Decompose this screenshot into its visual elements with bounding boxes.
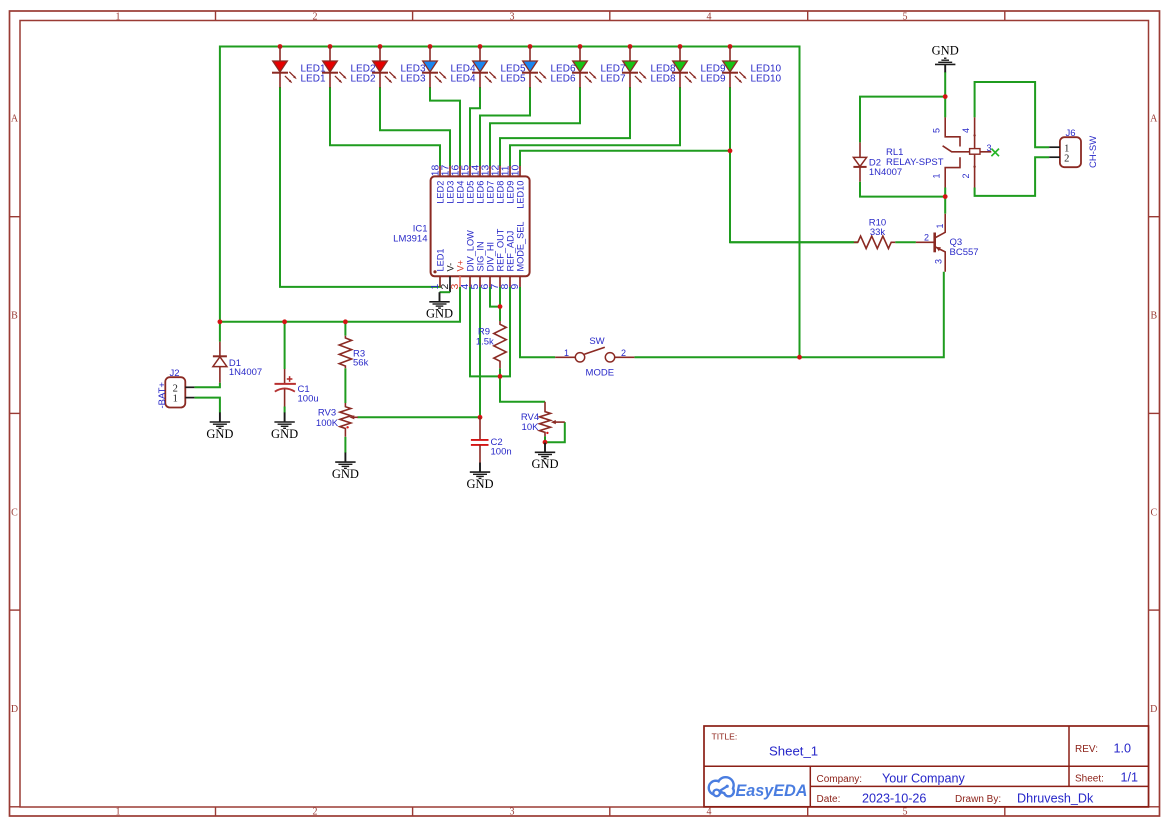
wire: LED8 cathode to IC pin 12 (500, 87, 630, 166)
svg-text:C: C (1150, 508, 1157, 519)
svg-text:LED8: LED8 (496, 181, 506, 204)
svg-text:9: 9 (510, 284, 521, 290)
wire: LED3 cathode to IC pin 17 (380, 87, 450, 166)
junction: R9 top node (498, 304, 503, 309)
svg-text:2: 2 (313, 807, 318, 818)
LED LED2 (322, 47, 376, 88)
wire: relay coil pin 5 connection (944, 97, 946, 118)
svg-text:LED4: LED4 (451, 73, 476, 84)
svg-text:LED4: LED4 (456, 181, 466, 204)
capacitor C2 100n (471, 417, 512, 462)
svg-text:LED10: LED10 (751, 73, 782, 84)
wire: C1 top lead to rail (284, 322, 286, 369)
svg-text:1: 1 (173, 394, 178, 405)
LED LED7 (572, 47, 626, 88)
wire: relay pin 2 to J6 pin 2 (975, 157, 1050, 196)
ground: C2 (466, 463, 493, 492)
svg-text:Dhruvesh_Dk: Dhruvesh_Dk (1017, 791, 1094, 805)
wire: LED10 node down and across to R10 (730, 151, 854, 243)
svg-text:Sheet_1: Sheet_1 (769, 744, 818, 759)
LED LED5 (472, 47, 526, 88)
svg-text:3: 3 (510, 11, 515, 22)
wire: LED6 cathode to IC pin 14 (480, 87, 530, 166)
svg-text:LED6: LED6 (476, 181, 486, 204)
wire: R9 top lead connection (499, 307, 501, 321)
svg-text:A: A (11, 114, 19, 125)
wire: SW pin 2 across to Q3 collector, junction with LED rail drop (634, 272, 943, 358)
svg-text:33k: 33k (870, 227, 886, 238)
svg-text:2023-10-26: 2023-10-26 (862, 791, 926, 805)
svg-text:MODE_SEL: MODE_SEL (516, 221, 526, 271)
svg-text:4: 4 (961, 128, 971, 133)
wire: relay pin 4 to J6 pin 1 (975, 82, 1050, 147)
svg-text:-BAT+: -BAT+ (157, 382, 168, 409)
wire: RV4 wiper loop to bottom node (545, 422, 565, 442)
ground: relay (inverted) (932, 44, 959, 73)
wire: LED10 cathode drop (729, 87, 731, 151)
svg-text:5: 5 (932, 128, 942, 133)
svg-text:100n: 100n (491, 446, 512, 457)
wire: LED7 cathode to IC pin 13 (490, 87, 580, 166)
svg-text:SIG_IN: SIG_IN (476, 241, 486, 271)
wire: R3 bottom to RV3 top (344, 368, 346, 403)
svg-text:Sheet:: Sheet: (1075, 773, 1104, 784)
svg-text:CH-SW: CH-SW (1088, 136, 1099, 168)
wire: D1 top lead to rail (219, 322, 221, 342)
svg-text:EasyEDA: EasyEDA (736, 782, 808, 800)
svg-text:LED9: LED9 (506, 181, 516, 204)
capacitor C1 100u (polarized) (275, 369, 319, 407)
svg-text:1.5k: 1.5k (476, 336, 494, 347)
svg-text:1: 1 (932, 173, 942, 178)
svg-text:LED3: LED3 (446, 181, 456, 204)
svg-text:Company:: Company: (817, 774, 863, 785)
svg-text:J6: J6 (1066, 128, 1076, 139)
svg-text:LED1: LED1 (436, 249, 446, 272)
svg-text:RELAY-SPST: RELAY-SPST (886, 157, 944, 168)
no-connect X on relay pin 3 (991, 149, 999, 157)
wire: R3 top lead to rail (344, 322, 346, 336)
wire: IC pin 5 SIG_IN down to C2 node (479, 287, 481, 417)
svg-text:LED5: LED5 (466, 181, 476, 204)
wire: RV3 bottom to GND (344, 437, 346, 453)
diode D2 1N4007 (853, 142, 902, 181)
LED LED3 (372, 47, 426, 88)
svg-text:1.0: 1.0 (1114, 742, 1132, 756)
svg-text:LED8: LED8 (651, 73, 676, 84)
wire: LED1 cathode to IC pin 1 (280, 87, 441, 287)
svg-text:TITLE:: TITLE: (712, 732, 738, 742)
svg-text:4: 4 (707, 807, 712, 818)
svg-text:1: 1 (935, 223, 945, 228)
svg-text:1: 1 (116, 807, 121, 818)
svg-text:1N4007: 1N4007 (229, 367, 262, 378)
junction: V+ rail at C1 (282, 319, 287, 324)
svg-text:DIV_LOW: DIV_LOW (466, 230, 476, 272)
LED LED10 (722, 47, 782, 88)
ground: J2 (206, 412, 233, 441)
junction: V+ rail at D1 (218, 319, 223, 324)
svg-text:D: D (11, 704, 18, 715)
svg-text:1: 1 (564, 348, 569, 358)
wire: LED9 cathode to IC pin 11 (510, 87, 680, 166)
wire: relay coil pin 1 to Q3 emitter node (944, 188, 946, 214)
wire: IC pin 7 REF_OUT to R9 top node (499, 287, 501, 307)
svg-text:3: 3 (510, 807, 515, 818)
relay RL1 RELAY-SPST (886, 117, 992, 187)
connector J2 BAT (157, 368, 194, 409)
junction: rail drop / switch line / Q3 collector (797, 355, 802, 360)
transistor Q3 BC557 (916, 214, 979, 272)
potentiometer RV4 10K (521, 402, 565, 437)
svg-text:LED3: LED3 (401, 73, 426, 84)
wire: R9 bottom lead connection (499, 368, 501, 376)
svg-text:REF_ADJ: REF_ADJ (506, 231, 516, 272)
svg-text:REV:: REV: (1075, 744, 1098, 755)
svg-text:LED6: LED6 (551, 73, 576, 84)
wire: IC pin 2 V- to GND (449, 287, 451, 292)
ground: RV4 (531, 443, 558, 472)
wire: IC pin 4 DIV_LOW down to R9 bottom node (470, 287, 500, 376)
LED LED9 (672, 47, 726, 88)
svg-text:GND: GND (932, 44, 959, 58)
svg-text:J2: J2 (170, 368, 180, 379)
diode D1 1N4007 (213, 342, 262, 383)
wire: V+ rail from IC pin 3 to D1 (220, 287, 460, 322)
svg-text:Drawn By:: Drawn By: (955, 794, 1001, 805)
svg-text:100u: 100u (298, 393, 319, 404)
junction: V+ rail at R3 (343, 319, 348, 324)
svg-text:DIV_HI: DIV_HI (486, 242, 496, 272)
wire: LED anode supply rail with left drop to V+ rail and right drop to switch line (220, 47, 800, 358)
svg-text:3: 3 (987, 143, 992, 153)
LED LED1 (272, 47, 326, 88)
resistor R10 33k (730, 218, 895, 249)
svg-text:BC557: BC557 (950, 247, 979, 258)
wire: IC pin 6 DIV_HI to R9 top node (490, 287, 500, 307)
wire: J2 pin 1 to GND (194, 398, 220, 413)
wire: RV4 bottom lead to node (544, 436, 546, 442)
ground: C1 (271, 412, 298, 441)
wire: R9 bottom node down to RV4 top (500, 376, 545, 401)
op-amp/driver IC U1: IC1 LM3914 (393, 165, 529, 290)
junction: LED10 / pin10 / R10 node (728, 148, 733, 153)
svg-text:LED5: LED5 (501, 73, 526, 84)
svg-text:1N4007: 1N4007 (869, 167, 902, 178)
svg-text:LED10: LED10 (516, 181, 526, 209)
potentiometer RV3 100K (316, 403, 358, 437)
wire: R10 to Q3 base (895, 241, 916, 243)
svg-text:LED7: LED7 (486, 181, 496, 204)
svg-text:4: 4 (707, 11, 712, 22)
svg-text:5: 5 (903, 11, 908, 22)
LED LED8 (622, 47, 676, 88)
wire: LED2 cathode to IC pin 18 (330, 87, 440, 166)
svg-text:Your Company: Your Company (882, 771, 966, 785)
junction: relay top / D2 / GND node (943, 94, 948, 99)
svg-text:1/1: 1/1 (1121, 771, 1139, 785)
svg-text:LED9: LED9 (701, 73, 726, 84)
svg-text:2: 2 (621, 348, 626, 358)
svg-text:2: 2 (961, 173, 971, 178)
wire: LED4 cathode to IC pin 16 (430, 87, 460, 166)
title block (704, 726, 1149, 807)
svg-text:100K: 100K (316, 418, 339, 429)
svg-text:2: 2 (313, 11, 318, 22)
svg-text:RV3: RV3 (318, 407, 336, 418)
junction: LED rail taps (278, 44, 283, 49)
svg-text:B: B (1150, 311, 1157, 322)
svg-text:A: A (1150, 114, 1158, 125)
wire: C1 bottom to GND (284, 407, 286, 413)
svg-text:10: 10 (511, 165, 522, 177)
svg-text:LED7: LED7 (601, 73, 626, 84)
wire: IC pin 9 MODE_SEL to switch SW pin 1 (520, 287, 555, 357)
LED LED6 (522, 47, 576, 88)
wire: IC pin 10 to LED10 node (520, 151, 730, 166)
svg-text:10K: 10K (522, 422, 540, 433)
svg-text:LM3914: LM3914 (393, 233, 427, 244)
resistor R9 1.5k (476, 321, 506, 368)
svg-text:B: B (11, 311, 18, 322)
svg-text:2: 2 (1064, 154, 1069, 165)
connector J6 CH-SW (1049, 128, 1099, 168)
svg-text:2: 2 (924, 232, 929, 242)
svg-text:D: D (1150, 704, 1157, 715)
wire: LED5 cathode to IC pin 15 (470, 87, 480, 166)
svg-text:1: 1 (116, 11, 121, 22)
svg-text:MODE: MODE (586, 367, 615, 378)
wire: D2 top branch (860, 97, 945, 143)
resistor R3 56k (339, 336, 368, 369)
wire: relay GND drop (944, 72, 946, 97)
svg-text:5: 5 (903, 807, 908, 818)
ground: IC V- (426, 292, 453, 321)
ground: RV3 (332, 453, 359, 482)
wire: RV3 wiper to C2 node (357, 416, 480, 418)
wire: D2 bottom branch (860, 182, 945, 197)
wire: D1 bottom to J2 pin 2 (194, 383, 220, 388)
junction: C2 / SIG_IN node (478, 415, 483, 420)
svg-text:V+: V+ (456, 260, 466, 272)
junction: R9 bottom node (498, 374, 503, 379)
svg-text:3: 3 (933, 259, 943, 264)
switch SW MODE (555, 336, 634, 379)
svg-text:Date:: Date: (817, 794, 841, 805)
svg-text:LED1: LED1 (301, 73, 326, 84)
svg-text:C: C (11, 508, 18, 519)
svg-text:LED2: LED2 (351, 73, 376, 84)
svg-text:LED2: LED2 (436, 181, 446, 204)
svg-text:REF_OUT: REF_OUT (496, 228, 506, 271)
svg-text:SW: SW (589, 336, 604, 347)
junction: RV4 bottom node (543, 440, 548, 445)
junction: relay pin1 / D2 / Q3 node (943, 194, 948, 199)
svg-text:V-: V- (446, 263, 456, 272)
svg-text:56k: 56k (353, 358, 369, 369)
LED LED4 (422, 47, 476, 88)
wire: IC pin 8 REF_ADJ down to R9 bottom node (500, 287, 510, 376)
EasyEDA logo (709, 777, 808, 800)
